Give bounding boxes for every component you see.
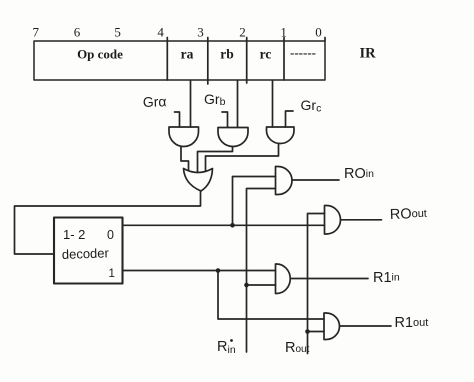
svg-text:Rout: Rout (285, 340, 310, 356)
svg-text:IR: IR (359, 46, 376, 62)
wire Rout branch to R1out lower input (308, 331, 325, 333)
svg-text:ra: ra (181, 47, 194, 62)
svg-text:3: 3 (197, 25, 204, 40)
svg-text:Grb: Grb (204, 91, 226, 108)
and-gate R0out (325, 206, 341, 235)
and-gate R0in (276, 167, 293, 195)
wire R0in output (292, 179, 339, 181)
svg-text:Op code: Op code (77, 47, 123, 62)
field divider ra (166, 38, 168, 81)
wire G2 out to OR (198, 147, 233, 173)
wire rc to gate G3 (272, 81, 274, 128)
wire branch to R0in upper input (233, 177, 276, 226)
svg-text:2: 2 (239, 25, 246, 40)
wire branch decoder-1 to R1out upper input (218, 271, 324, 320)
field divider rc (246, 38, 248, 84)
svg-text:0: 0 (315, 25, 322, 40)
wire Grc input hook (286, 111, 294, 127)
field divider rb (207, 38, 209, 85)
tick right edge (324, 38, 326, 42)
svg-text:5: 5 (114, 25, 121, 40)
decoder box (54, 218, 123, 284)
svg-text:1- 2: 1- 2 (63, 227, 85, 242)
svg-text:rb: rb (220, 47, 234, 62)
svg-text:Grα: Grα (143, 93, 167, 110)
and-gate R1out (324, 313, 340, 340)
svg-text:rc: rc (260, 47, 272, 62)
or-gate U1 (184, 169, 213, 192)
wire G3 out to OR (206, 144, 279, 171)
junction node on decoder-0 line (230, 223, 235, 228)
svg-text:------: ------ (290, 45, 316, 60)
svg-text:6: 6 (74, 25, 81, 40)
svg-text:1: 1 (280, 25, 287, 40)
wire Grb input hook (222, 112, 228, 127)
svg-text:ROout: ROout (390, 206, 428, 223)
register IR box (34, 41, 325, 80)
wire R1out output (340, 325, 392, 327)
wire ra to gate G1 (190, 81, 192, 128)
wire decoder output 1 (123, 270, 276, 272)
junction node on decoder-1 line (216, 268, 221, 273)
svg-text:Rin: Rin (217, 339, 236, 356)
wire OR out to decoder (15, 191, 201, 254)
svg-text:R1out: R1out (395, 315, 429, 331)
and-gate R1in (276, 264, 291, 294)
wire G1 out to OR (181, 147, 189, 171)
field divider const (283, 38, 285, 81)
and-gate G1 (Gra) (169, 127, 199, 147)
svg-text:1: 1 (109, 268, 115, 280)
and-gate G3 (Grc) (266, 127, 294, 144)
and-gate G2 (Grb) (218, 128, 248, 147)
wire Gra input hook (175, 112, 180, 127)
wire Rin vertical (247, 189, 276, 353)
svg-text:4: 4 (157, 25, 164, 40)
wire rb to gate G2 (237, 81, 239, 128)
svg-text:R1in: R1in (373, 270, 400, 286)
junction node on Rin line (244, 283, 249, 288)
junction node on Rout line (305, 329, 310, 334)
svg-text:ROin: ROin (344, 166, 374, 182)
wire R1in output (290, 278, 368, 280)
svg-text:decoder: decoder (62, 245, 110, 262)
wire Rout vertical (308, 214, 325, 354)
svg-text:Grc: Grc (301, 97, 322, 115)
svg-text:7: 7 (32, 25, 39, 40)
wire decoder output 0 (123, 224, 325, 226)
wire R0out output (341, 219, 382, 221)
wire Rin branch to R1in lower input (247, 284, 276, 286)
svg-text:0: 0 (107, 228, 114, 242)
